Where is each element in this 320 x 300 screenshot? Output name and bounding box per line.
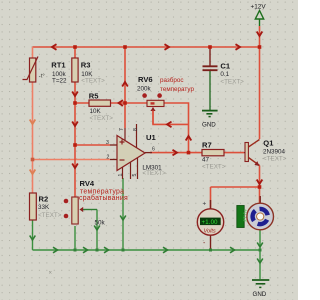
- svg-text:7: 7: [119, 128, 125, 131]
- arrow green right bottom x=55: [53, 247, 58, 253]
- svg-text:C1: C1: [220, 62, 230, 71]
- wire R7 to Q1 base: [224, 152, 244, 154]
- motor display: [237, 206, 248, 228]
- arrow right on rail x=166: [165, 44, 170, 50]
- svg-text:разброс: разброс: [160, 76, 184, 84]
- junction rail x=210: [208, 45, 212, 49]
- svg-text:RT1: RT1: [51, 60, 66, 69]
- arrow green down R2 y=238: [30, 236, 36, 241]
- resistor R7: [202, 141, 226, 171]
- power +12V symbol: [251, 4, 267, 27]
- wire op-amp pin4 ground column: [122, 178, 124, 250]
- arrow down R3 column y=124: [72, 122, 78, 127]
- svg-text:5: 5: [132, 174, 138, 177]
- svg-text:<TEXT>: <TEXT>: [38, 212, 62, 219]
- arrow green right bottom x=85: [83, 247, 88, 253]
- junction green motor: [259, 249, 262, 252]
- svg-text:Q1: Q1: [263, 139, 274, 148]
- svg-text:<TEXT>: <TEXT>: [142, 170, 166, 177]
- svg-text:<TEXT>: <TEXT>: [202, 164, 226, 171]
- arrow left feedback y=124.4: [167, 122, 172, 128]
- svg-text:<TEXT>: <TEXT>: [263, 155, 287, 162]
- wire bottom ground line y=250: [33, 249, 261, 251]
- svg-text:GND: GND: [202, 121, 216, 128]
- wire voltmeter top branch y=187: [211, 187, 260, 209]
- wire motor bottom green: [259, 230, 261, 279]
- svg-text:температур: температур: [160, 86, 194, 93]
- junction rail x=259.5: [258, 45, 262, 49]
- wire +12V drop x=259.5: [259, 26, 261, 47]
- wire RV4 bottom green: [74, 226, 76, 250]
- wire R5 leads y=103: [75, 102, 147, 104]
- wire Q1 collector column: [259, 47, 261, 139]
- resistor R3: [72, 58, 105, 85]
- wire RV6 right + feedback column x=188.5: [164, 103, 189, 153]
- ground bottom: [252, 280, 269, 298]
- svg-text:3: 3: [106, 140, 109, 146]
- svg-text:R2: R2: [39, 195, 49, 204]
- arrow down left column y=172: [30, 170, 36, 175]
- arrow up feedback column y=138: [186, 136, 192, 141]
- arrow left R5 line x=121: [119, 100, 124, 106]
- svg-text:50k: 50k: [95, 220, 106, 227]
- wire C1 drop: [209, 47, 211, 66]
- svg-text:0.1: 0.1: [220, 71, 229, 78]
- wire RV6 wiper feedback: [153, 108, 189, 125]
- arrow right output x=174: [173, 150, 178, 156]
- potentiometer RV6: [137, 75, 194, 124]
- wire voltmeter bottom lead: [210, 235, 212, 250]
- junction green wiper: [96, 249, 99, 252]
- motor: [247, 196, 274, 230]
- capacitor C1: [203, 62, 245, 86]
- svg-text:×: ×: [49, 271, 53, 277]
- wire Q1 emitter column: [259, 166, 261, 204]
- arrow green right bottom x=106: [104, 247, 109, 253]
- arrow down left column y=122: [30, 120, 36, 125]
- svg-text:R3: R3: [81, 60, 91, 69]
- svg-text:200k: 200k: [137, 85, 152, 92]
- wire left column x=32.5: [32, 47, 34, 193]
- arrow up pin7 column y=84: [122, 82, 128, 87]
- junction R5 node: [73, 101, 77, 105]
- junction green RV4: [74, 249, 77, 252]
- junction green pin4: [122, 249, 125, 252]
- svg-text:срабатывания: срабатывания: [79, 194, 128, 202]
- junction emitter node: [258, 185, 262, 189]
- svg-text:R7: R7: [202, 141, 212, 150]
- arrow down emitter y=182: [257, 180, 263, 185]
- svg-text:Volts: Volts: [204, 229, 216, 235]
- arrow green down pin4 y=218: [120, 216, 126, 221]
- wire RV4 wiper column green: [96, 210, 98, 251]
- svg-text:<TEXT>: <TEXT>: [220, 79, 244, 86]
- potentiometer RV4: [64, 179, 128, 227]
- svg-text:RV4: RV4: [80, 179, 95, 188]
- wire R3 column x=75: [74, 47, 76, 197]
- arrow down R3 column y=94: [72, 92, 78, 97]
- arrow green right bottom x=165: [163, 247, 168, 253]
- junction pin2 node: [31, 158, 35, 162]
- arrow right on rail x=237: [236, 44, 241, 50]
- thermistor RT1: [23, 57, 68, 85]
- svg-text:R5: R5: [89, 91, 99, 100]
- svg-text:1: 1: [118, 174, 124, 177]
- svg-text:<TEXT>: <TEXT>: [81, 78, 105, 85]
- op-amp U1: [106, 124, 166, 179]
- transistor Q1: [244, 139, 287, 166]
- svg-text:47: 47: [202, 157, 210, 164]
- junction rail x=75: [73, 45, 77, 49]
- junction green voltmeter: [209, 249, 212, 252]
- arrow down +12V x=259.5: [257, 32, 263, 37]
- voltmeter: [197, 200, 223, 247]
- resistor R5: [89, 91, 113, 122]
- wire R2 bottom green: [32, 220, 34, 250]
- svg-text:U1: U1: [146, 133, 156, 142]
- wire pin7 column x=125: [124, 47, 126, 128]
- svg-text:6: 6: [152, 146, 155, 152]
- svg-text:-t°: -t°: [39, 74, 45, 80]
- wire top rail y=47: [33, 46, 260, 48]
- svg-text:+1.00: +1.00: [202, 220, 219, 226]
- junction pin7 node: [123, 101, 127, 105]
- ground C1: [202, 111, 218, 129]
- svg-text:8: 8: [133, 128, 139, 131]
- wire C1 to gnd green: [209, 70, 211, 110]
- svg-text:2: 2: [107, 155, 110, 161]
- junction pin3 node: [73, 143, 77, 147]
- svg-text:RV6: RV6: [138, 75, 153, 84]
- arrow green right bottom x=232: [230, 247, 235, 253]
- svg-text:+12V: +12V: [251, 4, 267, 11]
- wire op-amp output y=152.6: [150, 152, 202, 154]
- arrow green down motor y=261: [257, 259, 263, 264]
- svg-text:<TEXT>: <TEXT>: [90, 115, 114, 122]
- wire pin3 line y=145: [75, 144, 110, 146]
- svg-text:2N3904: 2N3904: [263, 148, 286, 155]
- arrow green down wiper y=228: [94, 226, 100, 231]
- junction output node: [187, 151, 191, 155]
- resistor R2: [30, 193, 62, 220]
- arrow left on rail x=55: [52, 44, 57, 50]
- svg-text:GND: GND: [253, 291, 267, 298]
- arrow green down motor y=245: [257, 243, 263, 248]
- svg-text:T=22: T=22: [52, 78, 67, 85]
- wire pin2 line y=159.5: [33, 159, 111, 161]
- arrow down R3 column y=166: [72, 164, 78, 169]
- junction rail x=125: [123, 45, 127, 49]
- svg-text:+: +: [203, 201, 207, 208]
- svg-text:33K: 33K: [38, 204, 50, 211]
